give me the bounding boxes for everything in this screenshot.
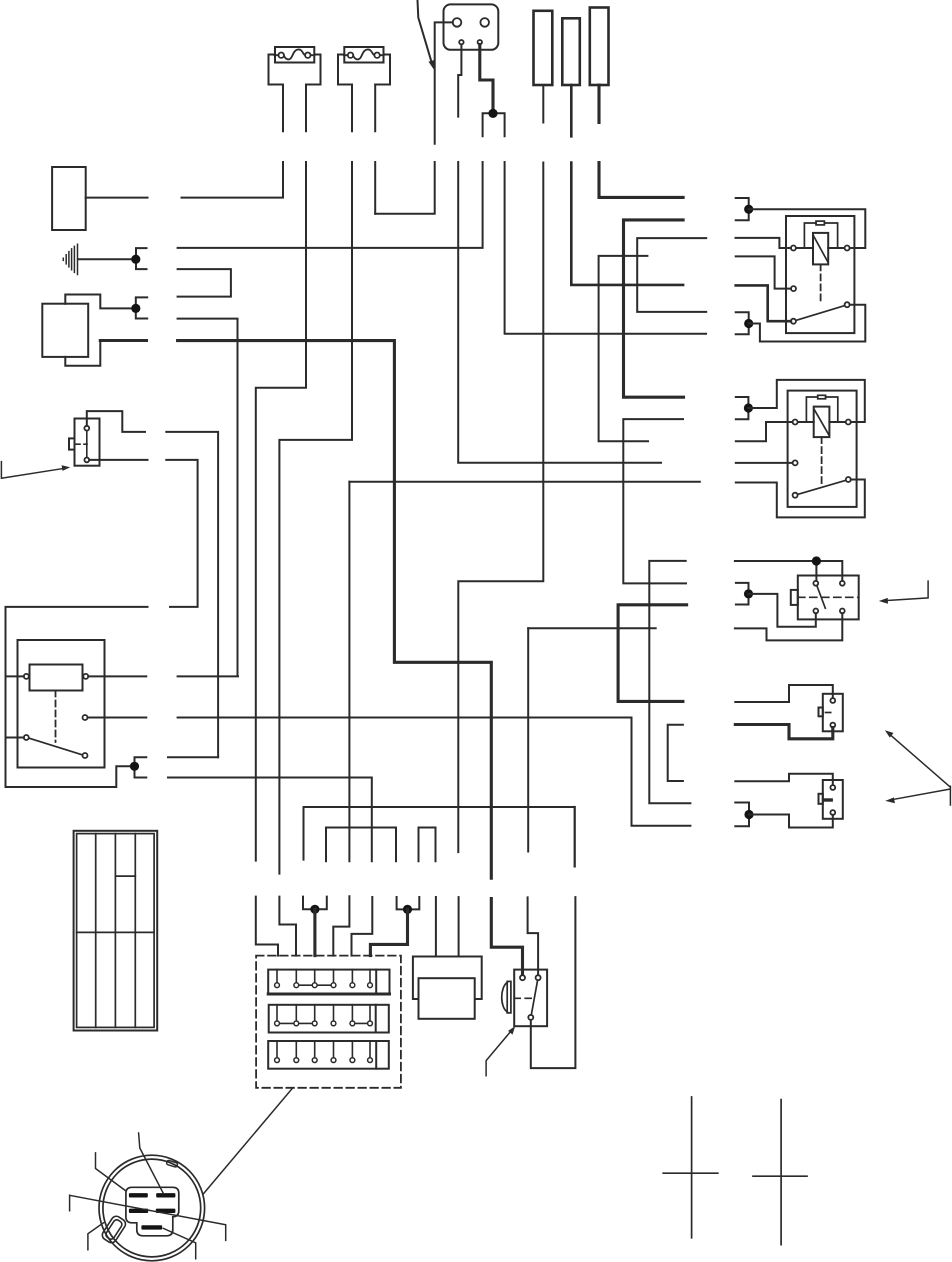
battery cell divider 1	[95, 834, 97, 1028]
lamp B pin bottom	[830, 810, 835, 815]
wire column to ignition switch cap right	[458, 897, 460, 956]
relay R1 top connector bracket	[736, 198, 749, 220]
lamp B loop top	[735, 774, 833, 785]
relay R2 resistor	[818, 395, 826, 399]
flasher tab	[69, 438, 75, 449]
dimmer connector bracket	[736, 583, 749, 605]
round connector inner ring	[103, 1159, 201, 1257]
fuse F2 body	[338, 55, 390, 85]
left relay connector bracket	[135, 757, 147, 777]
terminal circle C1-B	[480, 18, 489, 27]
relay R2 resistor loop	[806, 397, 837, 422]
left relay pin L	[24, 674, 29, 679]
leader from keyway	[88, 1223, 104, 1250]
left component box (resistor block)	[52, 167, 86, 230]
leader arrow to flasher	[1, 462, 70, 479]
cross mark 1	[663, 1097, 718, 1238]
wire thick bus to lamp row (dimmer bracket)	[618, 605, 687, 702]
starter switch arm	[531, 980, 537, 1015]
fuse F1 window	[275, 47, 314, 63]
junction dot coil	[131, 304, 140, 313]
wire lamp B bracket to pin bottom	[749, 815, 833, 828]
relay R2 box	[788, 391, 857, 507]
wire row 419 corner bus	[623, 419, 686, 583]
pin bar row1 R	[156, 1193, 175, 1197]
pin bar row2 R	[156, 1209, 176, 1213]
lamp A loop bottom (thick)	[735, 725, 833, 739]
fusebox connector row 2	[269, 1005, 389, 1033]
junction dot ground	[131, 255, 140, 264]
left relay plunger dashed	[55, 691, 57, 743]
wire column to fusebox pin 4	[333, 482, 349, 956]
flasher internal dash	[75, 443, 87, 445]
wire C1-D to junction	[480, 44, 493, 111]
left relay coil	[30, 665, 83, 691]
battery inner case	[77, 834, 155, 1028]
flasher internal link	[86, 431, 88, 458]
starter pin TL	[520, 975, 525, 980]
leader arrow to starter switch	[486, 1026, 515, 1076]
wire R2 supply loop	[748, 380, 864, 422]
relay R2 switch common	[793, 493, 798, 498]
jumper bracket lamps	[668, 725, 683, 781]
pin bar row3	[141, 1225, 162, 1229]
junction dot R2	[744, 403, 753, 412]
starter pin TR	[536, 975, 541, 980]
wire starter bottom loop	[531, 897, 576, 1068]
jumper bracket rows 238/312	[637, 238, 706, 312]
relay R1 box	[786, 216, 854, 333]
fusebox connector row 1	[268, 970, 389, 994]
round connector index notch	[166, 1160, 178, 1167]
wire R2 switch NO loop	[349, 480, 864, 518]
left relay pin R	[83, 674, 88, 679]
ignition coil bottom terminal wrap	[65, 341, 100, 366]
relay R1 pin mid	[791, 286, 796, 291]
ground symbol	[63, 244, 131, 274]
wire R1 row A to coil L	[736, 238, 791, 248]
cross mark 2	[753, 1100, 807, 1245]
fusible link FL1 lead	[458, 85, 543, 852]
lamp B tick (filled)	[825, 798, 831, 801]
left relay pin mid	[83, 715, 88, 720]
ground connector bracket	[136, 248, 147, 269]
jumper loop pins 418-435	[419, 828, 436, 862]
wire leg to ground row	[178, 162, 483, 248]
battery cell divider 3	[134, 834, 136, 1028]
jumper loop pins 326-396	[326, 828, 396, 862]
lamp B tab	[819, 794, 823, 804]
wire column 528 to starter TR	[528, 628, 539, 975]
junction dot R1 top	[744, 205, 753, 214]
wire C1-A to long vertical feed	[375, 22, 453, 213]
wire dimmer vertical to lamp B bracket	[649, 628, 690, 803]
leader arrow to dimmer switch	[879, 581, 928, 604]
left relay switch arm	[29, 738, 83, 755]
flasher terminal top	[84, 426, 89, 431]
battery outer case	[74, 831, 158, 1031]
wire left block to fuse F1	[86, 197, 148, 199]
lamp B connector bracket	[735, 803, 749, 827]
junction dot lamp B	[744, 810, 753, 819]
wire flasher top terminal	[87, 411, 218, 757]
lamp B body	[823, 780, 843, 819]
fuse box dashed outline	[256, 956, 401, 1088]
junction dot node B+	[488, 109, 497, 118]
wire R1 thick row to switch common	[736, 285, 791, 321]
fusible link FL2 lead (thick)	[571, 85, 683, 285]
ignition coil body	[42, 304, 88, 357]
wire leg to relay R1 row	[505, 162, 706, 334]
ignition coil top terminal wrap	[65, 295, 131, 309]
relay R2 pin mid	[793, 460, 798, 465]
dimmer switch arm	[817, 586, 826, 609]
fuse F2 window	[344, 47, 383, 63]
fuse F1 right leg down-jog bus	[256, 85, 306, 956]
relay R2 switch arm	[798, 480, 846, 494]
fusible link FL3 lead (thick)	[599, 85, 683, 197]
relay R1 bottom connector bracket	[736, 312, 749, 334]
terminal circle C1-A	[453, 18, 462, 27]
fusebox connector row 3	[268, 1041, 389, 1069]
leader from row3 pin	[163, 1228, 195, 1258]
fuse F2 left leg down-jog bus	[279, 85, 352, 956]
lamp A pin bottom	[830, 723, 835, 728]
key symbol arc	[502, 982, 507, 1012]
pin bar row2 L	[129, 1209, 148, 1213]
relay R1 resistor	[816, 221, 824, 225]
relay R1 plunger dashed	[820, 264, 822, 302]
junction dot merge 1	[310, 905, 319, 914]
junction dot left relay	[130, 762, 139, 771]
wire merge 2 down to fusebox pin 6 (thick)	[370, 909, 407, 955]
coil connector bracket	[136, 297, 147, 318]
fuse F2 right leg	[374, 85, 376, 214]
left relay switch NO	[83, 753, 88, 758]
dimmer switch box	[798, 576, 859, 620]
flasher unit box	[75, 419, 100, 466]
lamp A loop top	[735, 685, 833, 702]
left relay (horn relay) box	[18, 640, 105, 768]
pin bar row1 L	[129, 1193, 148, 1197]
relay R2 connector bracket	[736, 397, 749, 419]
connector bracket below C1	[483, 113, 505, 136]
junction dot merge 2	[403, 905, 412, 914]
wire relay row upper resume	[168, 756, 218, 758]
relay R1 switch NO	[845, 302, 850, 307]
dimmer pin BL	[813, 609, 818, 614]
dimmer pin BR	[840, 609, 845, 614]
wire merge pins 303+327	[303, 897, 327, 910]
wire R2 row to mid pin	[736, 462, 793, 464]
starter switch dashed	[514, 997, 533, 999]
leader to row1 left pin	[96, 1153, 126, 1191]
leader fusebox to round connector	[203, 1088, 292, 1194]
terminal circle C1-D	[478, 40, 482, 44]
wire R1 row B to mid pin	[736, 256, 791, 288]
relay R2 switch NO	[846, 477, 851, 482]
relay R2 plunger dashed	[821, 437, 823, 484]
starter pin bottom	[528, 1015, 533, 1020]
fuse F1 body	[269, 55, 321, 85]
wire dimmer lower row to pin BR	[528, 613, 842, 640]
lamp A pin top	[830, 698, 835, 703]
lamp B pin top	[830, 785, 835, 790]
relay R1 pin coil R	[845, 246, 850, 251]
relay R2 pin coil R	[846, 420, 851, 425]
junction dot dimmer	[744, 589, 753, 598]
wire R1 coil supply loop	[749, 209, 866, 248]
fuse F1 element	[275, 49, 315, 59]
leader crossing row2	[70, 1195, 226, 1240]
wire bus to relay switch common	[6, 737, 24, 739]
left relay switch common	[24, 735, 29, 740]
keyway slot	[100, 1214, 127, 1244]
fusible link FL3	[590, 8, 609, 86]
relay R2 pin coil L	[793, 420, 798, 425]
relay R1 switch arm	[796, 306, 845, 321]
connector C1 (rounded box with terminals)	[444, 4, 499, 49]
lamp A tab	[819, 708, 823, 717]
leader arrow to ignition feed wire	[418, 1, 435, 70]
relay R2 coil	[814, 407, 830, 438]
wire dimmer bracket to pin BL	[749, 594, 816, 627]
wire column 575 upper	[574, 807, 576, 867]
fuse F2 element	[344, 49, 384, 59]
relay R1 switch common	[791, 319, 796, 324]
relay R1 coil wires	[796, 247, 845, 249]
dimmer pin TL	[813, 581, 818, 586]
wire merge pins 397+419	[397, 897, 420, 909]
battery cell divider 2	[114, 834, 116, 1028]
wire coil feed row (thick)	[100, 341, 491, 879]
wire R2 row to coil L	[736, 422, 793, 441]
relay R2 coil wires	[798, 421, 846, 423]
fusible link FL1	[534, 11, 553, 85]
wire coil feed lower run (thick)	[491, 899, 522, 975]
key symbol bar	[507, 981, 511, 1013]
wire column to ignition switch cap left	[435, 897, 437, 957]
dimmer pin TR	[840, 581, 845, 586]
junction dot R1 bottom	[744, 319, 753, 328]
flasher terminal bottom	[84, 458, 89, 463]
ignition switch cap	[413, 957, 482, 1000]
ignition switch body	[419, 978, 475, 1019]
terminal circle C1-C	[459, 40, 463, 44]
leader to row1 right pin	[139, 1133, 164, 1194]
wire R1 switch NO loop	[749, 305, 866, 342]
wire thick bus R1 bracket to R2 bracket	[624, 220, 684, 397]
fusible link FL2	[562, 18, 580, 85]
relay R1 pin coil L	[791, 246, 796, 251]
wire relay mid pin output	[88, 718, 691, 826]
battery small plate line	[115, 875, 135, 877]
lamp A tick	[826, 712, 831, 714]
junction dot dimmer feed	[812, 556, 821, 565]
wire bus to relay coil L	[6, 675, 24, 677]
wire dimmer feed row	[649, 561, 842, 628]
wire merge 1 down to fusebox pin 3 (thick)	[313, 909, 316, 955]
dimmer switch tab	[791, 590, 798, 605]
lamp A body	[823, 694, 843, 732]
round connector outer ring	[99, 1155, 205, 1261]
wire flasher bottom terminal	[6, 460, 198, 787]
wire relay coil R output	[88, 675, 146, 677]
dimmer switch dashed line	[798, 596, 859, 598]
battery mid plate line	[77, 931, 155, 933]
wire coil bracket lower row to left relay	[178, 319, 238, 677]
starter switch box	[514, 970, 547, 1027]
wire long jumper row 807	[304, 807, 575, 867]
relay R1 resistor loop	[804, 223, 837, 248]
wire row B corner bus	[599, 256, 648, 441]
relay R1 coil	[813, 233, 828, 265]
leader arrows to lamps	[885, 730, 951, 805]
wire C1-C down-left column	[458, 44, 661, 462]
wire ground row U-turn	[178, 269, 231, 297]
wire relay row lower resume to fusebox column	[168, 778, 372, 956]
round connector pin block outline	[126, 1187, 179, 1236]
fuse F1 left leg to left rect row	[182, 85, 284, 198]
